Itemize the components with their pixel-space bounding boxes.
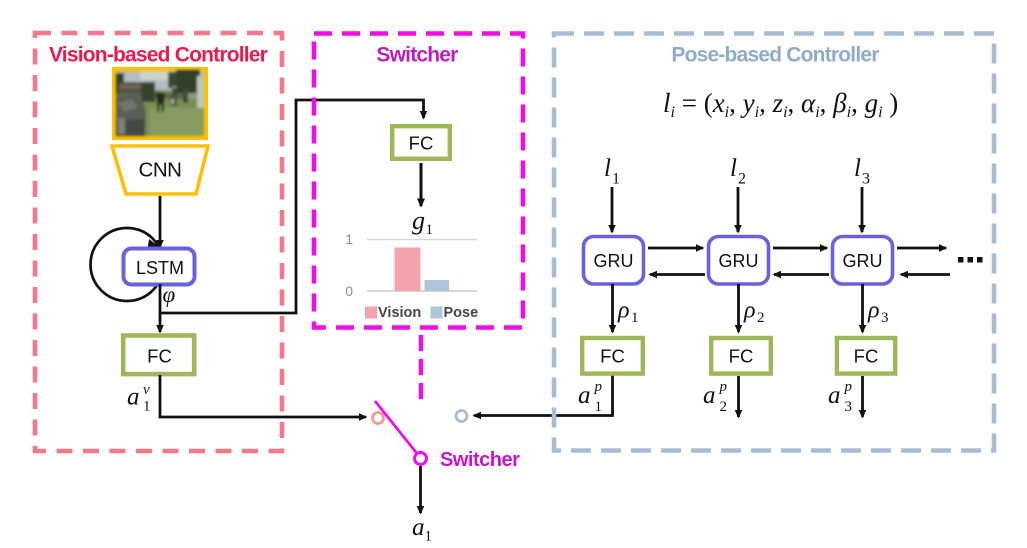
svg-text:3: 3	[862, 171, 870, 188]
svg-text:g: g	[412, 206, 425, 235]
svg-text:ρ: ρ	[617, 298, 630, 324]
svg-text:2: 2	[720, 399, 728, 415]
svg-text:Switcher: Switcher	[376, 44, 458, 67]
svg-text:GRU: GRU	[843, 251, 883, 271]
svg-text:Pose-based Controller: Pose-based Controller	[671, 44, 879, 67]
svg-text:FC: FC	[854, 346, 879, 367]
svg-text:p: p	[594, 379, 603, 395]
arrow GRU2 to GRU3	[773, 247, 827, 250]
svg-text:a: a	[127, 384, 140, 411]
svg-text:0: 0	[345, 283, 353, 299]
rho2 label	[743, 298, 765, 327]
a_3^p label	[828, 379, 853, 415]
svg-text:3: 3	[845, 399, 853, 415]
svg-text:FC: FC	[600, 346, 625, 367]
svg-text:FC: FC	[729, 346, 754, 367]
svg-text:a: a	[703, 382, 716, 409]
Vision-based Controller dashed box	[35, 33, 282, 451]
GRU2 box	[709, 237, 769, 285]
svg-text:1: 1	[426, 222, 434, 238]
svg-text:1: 1	[595, 399, 603, 415]
svg-text:LSTM: LSTM	[136, 258, 184, 278]
switch pose terminal (blue circle)	[456, 411, 467, 422]
svg-text:φ: φ	[163, 282, 176, 307]
wire LSTM to switcher FC	[160, 100, 424, 313]
arrow GRU2 to GRU1	[650, 273, 705, 276]
GRU3 box	[833, 237, 893, 285]
svg-text:1: 1	[612, 171, 620, 188]
LSTM box	[124, 249, 195, 285]
arrow LSTM to vision FC	[159, 313, 162, 332]
svg-text:1: 1	[425, 529, 433, 545]
svg-text:Pose: Pose	[444, 305, 479, 321]
wire vision FC to switch	[160, 375, 366, 417]
l2 label	[730, 155, 746, 188]
arrow FC2 output	[737, 376, 740, 417]
Pose bar	[425, 280, 450, 291]
svg-text:GRU: GRU	[719, 251, 759, 271]
svg-text:ρ: ρ	[743, 298, 756, 324]
LSTM self-loop	[91, 228, 164, 301]
bar chart gridlines	[367, 239, 477, 241]
arrow FC to g1	[420, 163, 423, 206]
LSTM self-loop arrowhead	[147, 239, 163, 252]
switcher FC box	[392, 126, 450, 159]
a_2^p label	[703, 379, 728, 415]
svg-text:Vision-based Controller: Vision-based Controller	[49, 44, 268, 67]
svg-text:2: 2	[757, 310, 765, 326]
Switcher dashed box	[314, 34, 523, 328]
wire pose FC1 to switch	[474, 375, 613, 416]
svg-text:Switcher: Switcher	[440, 449, 520, 471]
CNN trapezoid	[112, 146, 208, 194]
svg-text:ρ: ρ	[867, 298, 880, 324]
dashed connector switcher box to switch	[419, 335, 423, 399]
svg-text:l: l	[854, 155, 861, 182]
GRU1 box	[584, 237, 644, 285]
arrow GRU3 to dots	[897, 247, 946, 250]
svg-text:1: 1	[631, 310, 639, 326]
svg-text:FC: FC	[147, 346, 172, 367]
l3 label	[854, 155, 870, 188]
rho3 label	[867, 298, 889, 327]
svg-text:li = (xi, yi, zi, αi, βi, gi ): li = (xi, yi, zi, αi, βi, gi )	[663, 88, 898, 121]
arrow dots to GRU3	[901, 273, 950, 276]
arrow l3 to GRU3	[861, 187, 864, 232]
arrow GRU3 to GRU2	[774, 273, 829, 276]
svg-text:CNN: CNN	[139, 159, 182, 182]
svg-text:1: 1	[345, 231, 353, 247]
l1 label	[604, 155, 620, 188]
arrow l2 to GRU2	[737, 187, 740, 232]
g1 label	[412, 206, 433, 238]
svg-text:GRU: GRU	[594, 251, 634, 271]
svg-text:l: l	[730, 155, 737, 182]
svg-text:2: 2	[738, 171, 746, 188]
svg-text:l: l	[604, 155, 611, 182]
svg-text:3: 3	[881, 310, 889, 326]
arrow FC3 output	[861, 376, 864, 417]
Vision bar	[395, 248, 421, 292]
arrow GRU3 to FC3	[861, 284, 864, 332]
legend	[365, 305, 478, 321]
switch lever	[375, 401, 419, 456]
ellipsis dots	[958, 257, 983, 263]
vision FC box	[123, 336, 194, 375]
svg-text:a: a	[412, 514, 425, 541]
Pose-based Controller dashed box	[554, 34, 994, 451]
arrow GRU2 to FC2	[737, 284, 740, 332]
arrow CNN to LSTM	[159, 196, 162, 247]
svg-text:a: a	[578, 382, 591, 409]
a_1^p label	[578, 379, 603, 415]
a_1^v label	[127, 382, 151, 415]
rho1 label	[617, 298, 639, 327]
pose FC2 box	[711, 338, 771, 374]
pose FC1 box	[582, 338, 643, 374]
camera image (game scene)	[112, 67, 208, 140]
svg-text:1: 1	[143, 399, 151, 415]
arrow GRU1 to GRU2	[648, 247, 703, 250]
pose FC3 box	[837, 338, 895, 374]
svg-text:p: p	[719, 379, 728, 395]
svg-text:FC: FC	[409, 133, 434, 154]
a1 output label	[412, 514, 432, 545]
switch vision terminal (pink circle)	[373, 413, 384, 424]
svg-text:Vision: Vision	[378, 305, 421, 321]
arrow switch to a1	[419, 466, 422, 513]
switch pole (magenta circle)	[415, 453, 427, 465]
arrow l1 to GRU1	[611, 187, 614, 232]
arrow GRU1 to FC1	[611, 284, 614, 332]
svg-text:v: v	[143, 382, 150, 398]
svg-text:p: p	[844, 379, 853, 395]
pose equation	[663, 88, 898, 121]
svg-text:a: a	[828, 382, 841, 409]
